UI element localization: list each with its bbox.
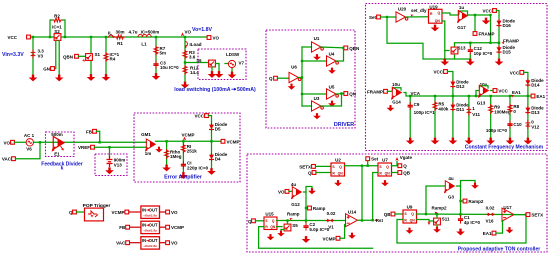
svg-text:500m: 500m (51, 132, 63, 137)
terminal EA1 (U17) (483, 231, 496, 236)
buffer U1 (312, 36, 324, 52)
wire EA1 to U17 minus (496, 221, 503, 233)
svg-text:Proposed adaptive TON controll: Proposed adaptive TON controller (458, 246, 541, 252)
svg-text:Constant Frequency Mechanism: Constant Frequency Mechanism (465, 144, 544, 150)
terminal Ramp2 (463, 199, 484, 204)
ground D11 (449, 138, 458, 145)
svg-text:Ramp: Ramp (313, 206, 326, 211)
buffer U3 (312, 96, 324, 111)
svg-text:+Out/1.8u: +Out/1.8u (143, 244, 157, 248)
wire U14 out to Rst (358, 219, 374, 221)
svg-text:1u: 1u (459, 5, 465, 10)
svg-text:Set: Set (371, 157, 379, 162)
wire SETX to U2 (316, 165, 332, 167)
wire VCC to D14 chain (524, 72, 529, 138)
wire U19 Q to G17 (442, 13, 459, 15)
wire U15 R to bottom rail (259, 227, 373, 249)
source V12 (526, 120, 540, 130)
resistor R8 (508, 95, 520, 138)
label Constant Frequency Mechanism (465, 144, 544, 150)
current probe ILoad (185, 42, 202, 49)
capacitor C12 (468, 46, 493, 56)
wire U17 out to SETX (514, 213, 527, 215)
svg-text:S6: S6 (196, 58, 202, 63)
ground QN line (441, 59, 450, 66)
svg-text:100p IC=1: 100p IC=1 (414, 110, 436, 115)
ground U4 (328, 68, 336, 74)
svg-text:251k: 251k (187, 148, 198, 153)
svg-text:Q: Q (403, 164, 407, 169)
svg-text:VO: VO (185, 29, 192, 34)
svg-text:VCMP: VCMP (171, 225, 184, 230)
wire U5 out to QN (336, 93, 344, 96)
svg-text:D15: D15 (503, 50, 512, 55)
comparator U14 (346, 209, 358, 226)
svg-text:Ramp2: Ramp2 (468, 199, 484, 204)
svg-text:GN: GN (43, 67, 50, 72)
svg-text:VO: VO (278, 189, 285, 194)
svg-text:OUT: OUT (149, 238, 158, 243)
wire ramp vertical (305, 192, 307, 223)
svg-text:3.6: 3.6 (189, 55, 196, 60)
capacitor C1 (458, 215, 481, 225)
svg-text:U9: U9 (407, 204, 413, 209)
svg-text:QN: QN (349, 92, 356, 97)
svg-text:0.02: 0.02 (486, 205, 495, 210)
svg-text:U14: U14 (348, 209, 357, 214)
resistor R12 (183, 61, 199, 75)
diode D5 (209, 122, 228, 132)
svg-text:VCMP: VCMP (227, 139, 240, 144)
wire G12 loop to arrow (304, 187, 313, 193)
wire Q to U2 R (316, 172, 331, 174)
svg-text:D4: D4 (215, 157, 221, 162)
flip-flop U15 (264, 211, 277, 229)
terminal EA1 (531, 94, 546, 99)
buffer U20 (396, 7, 408, 23)
ground C9 (406, 138, 415, 145)
wire VREF line (95, 146, 147, 148)
svg-text:FRAMP: FRAMP (503, 39, 519, 44)
svg-text:G17: G17 (457, 25, 466, 30)
wire U3 out up to QN line (321, 92, 343, 106)
wire Ramp2 vertical (459, 186, 463, 216)
buffer U4 (327, 52, 339, 66)
svg-text:D16: D16 (503, 23, 512, 28)
ground R5 (431, 138, 440, 145)
svg-text:U20: U20 (398, 7, 407, 12)
wire S13/C12 loop (455, 42, 500, 60)
current source G14 (391, 82, 401, 104)
wire VO to divider (15, 141, 147, 143)
resistor RI (181, 140, 197, 172)
flip-flop U2 (331, 157, 345, 176)
node Rst (374, 218, 383, 223)
svg-text:4.7u: 4.7u (128, 30, 137, 35)
wire load branch (184, 37, 186, 82)
ground U1 (313, 54, 321, 60)
terminal FRAMP (mid) (473, 32, 494, 37)
wire S1 branch (90, 36, 92, 75)
wire U9 Q out to main line (417, 213, 527, 216)
svg-text:FB: FB (119, 225, 126, 230)
svg-text:VO: VO (171, 210, 178, 215)
svg-text:G14: G14 (392, 100, 401, 105)
svg-text:Q: Q (269, 76, 273, 81)
svg-text:D11: D11 (456, 107, 465, 112)
ground S11 gate (427, 221, 430, 225)
node FRAMP label (489, 39, 519, 45)
wire R4 branch (105, 36, 107, 75)
battery V3 (2, 49, 44, 59)
terminal Q (driver in) (269, 76, 277, 81)
ground GM1 (155, 147, 162, 153)
svg-text:V16: V16 (485, 218, 494, 223)
terminal VO (G12) (278, 189, 289, 194)
label Error Amplifier (164, 174, 203, 180)
svg-text:IN: IN (142, 223, 146, 228)
diode D11 (450, 103, 469, 113)
wire G13 to VCC (491, 90, 494, 92)
source V16 (485, 205, 494, 223)
svg-text:VCC: VCC (433, 70, 443, 75)
op-amp GM1 (141, 132, 155, 156)
terminal VCMP out (221, 139, 239, 144)
svg-text:Vo=1.8V: Vo=1.8V (192, 27, 212, 33)
wire CFM main rail (404, 93, 531, 97)
wire VCMP to U14 minus (340, 225, 346, 239)
node QBN (63, 54, 78, 59)
wire QB to U9 (395, 213, 403, 215)
ground S5 (277, 230, 284, 237)
svg-text:S1: S1 (95, 52, 101, 57)
ground U17 (506, 227, 514, 233)
svg-text:G12: G12 (291, 202, 300, 207)
ground R9 (486, 138, 495, 145)
svg-text:set_dly: set_dly (411, 8, 427, 13)
switch S5 (284, 219, 298, 231)
svg-text:FRAMP: FRAMP (367, 89, 383, 94)
svg-text:4u: 4u (291, 182, 297, 187)
svg-text:10u IC=0: 10u IC=0 (160, 65, 179, 70)
wire U7 R from Rst line (373, 173, 378, 221)
wire U7 Q out (392, 162, 398, 166)
svg-text:V13: V13 (114, 163, 123, 168)
in-out probe 1 VCMP to VO (111, 206, 178, 218)
svg-text:SETX: SETX (299, 164, 311, 169)
ground C10 (506, 138, 515, 145)
wire U2Q down to ramp line (361, 166, 363, 222)
svg-text:VAC: VAC (2, 157, 12, 162)
flip-flop U19 (429, 4, 443, 23)
svg-text:R2: R2 (54, 14, 60, 19)
node EA1 label (510, 90, 521, 98)
ground below S6 (208, 71, 224, 78)
wire main input rail (31, 36, 209, 38)
svg-text:Q: Q (308, 171, 312, 176)
wire VAC up to node (16, 141, 42, 159)
diode D12 (450, 80, 469, 90)
ground E1 right arrow (61, 146, 65, 151)
V13 box (95, 154, 127, 176)
current source G17 (457, 5, 468, 30)
capacitor C10 (486, 121, 522, 134)
svg-text:V7: V7 (239, 61, 245, 66)
svg-text:ILoad: ILoad (190, 42, 202, 47)
resistor R5 (433, 95, 449, 138)
capacitor C2 (303, 222, 329, 232)
node Vgate (395, 155, 412, 161)
svg-text:Set: Set (369, 15, 377, 20)
resistor Rtho (165, 140, 182, 165)
svg-text:U3: U3 (314, 96, 320, 101)
wire to U1 (302, 46, 312, 48)
terminal VCC (EA) (194, 114, 208, 119)
capacitor C3 (153, 60, 179, 70)
svg-text:+Out/1.8u: +Out/1.8u (143, 213, 157, 217)
svg-text:100Meg: 100Meg (494, 110, 511, 115)
svg-text:QB: QB (384, 212, 392, 217)
switch S1 (82, 52, 101, 63)
svg-text:VCA: VCA (411, 91, 421, 96)
ground U15 (267, 234, 275, 240)
svg-text:OUT: OUT (149, 207, 158, 212)
svg-text:U5: U5 (329, 85, 335, 90)
inductor L1 (128, 30, 159, 47)
svg-text:QBN: QBN (63, 54, 73, 59)
diode D4 (209, 152, 228, 162)
terminal VCC (G17) (482, 9, 496, 14)
CFM box (366, 4, 548, 151)
svg-text:V11: V11 (472, 112, 480, 117)
svg-text:C9: C9 (414, 102, 420, 107)
svg-text:VO: VO (171, 241, 178, 246)
wire Q to pop box (77, 211, 85, 213)
svg-text:Rst: Rst (376, 218, 384, 223)
svg-text:Ramp2: Ramp2 (432, 205, 448, 210)
terminal QN (344, 92, 356, 97)
DRIVER box (266, 30, 355, 128)
svg-text:IC=500m: IC=500m (141, 30, 160, 35)
terminal Set (TON) (366, 157, 379, 166)
wire GM1 out (156, 140, 222, 142)
diode D15 (497, 45, 516, 55)
switch S6 (196, 58, 219, 72)
svg-text:500mA): 500mA) (237, 87, 256, 93)
svg-text:LDSW: LDSW (226, 52, 240, 57)
terminal QBN (344, 46, 359, 51)
svg-text:EA1: EA1 (536, 94, 545, 99)
terminal SETX (U2) (299, 164, 315, 169)
terminal FB (86, 129, 96, 134)
wire VCC diode chain (209, 116, 213, 169)
ground below V7 (228, 72, 237, 79)
svg-text:Vgate: Vgate (400, 155, 413, 160)
svg-text:OUT: OUT (149, 223, 158, 228)
svg-text:D14: D14 (531, 83, 540, 88)
wire U4 out up to QBN line (336, 48, 344, 61)
Feedback Divider box (46, 132, 75, 157)
wire U15 Q to ramp line (277, 220, 346, 222)
wire U9 QN to S11 gate (417, 220, 434, 222)
load switching box (198, 49, 246, 80)
ground U7 (381, 180, 389, 186)
wire G17 out (468, 14, 492, 43)
wire Q to U6 (278, 77, 290, 79)
svg-text:FB: FB (86, 129, 93, 134)
POP trigger box (85, 208, 104, 221)
current source G3 (444, 176, 455, 199)
wire U7 QN out (392, 172, 398, 174)
ground U5 (328, 101, 336, 107)
capacitor CI (181, 161, 209, 171)
svg-text:U19: U19 (429, 4, 438, 9)
ground V11 (465, 138, 474, 145)
ground C2 (302, 236, 311, 243)
terminal Q (U15) (248, 219, 255, 224)
current source G12 (291, 182, 301, 207)
wire U6 out vertical bus (299, 47, 304, 106)
svg-text:QN: QN (435, 19, 441, 23)
svg-text:DRIVER: DRIVER (334, 122, 354, 128)
svg-text:S11: S11 (442, 217, 450, 222)
svg-text:VREF: VREF (78, 145, 90, 150)
svg-text:V1: V1 (328, 224, 334, 229)
svg-text:VAC: VAC (116, 241, 126, 246)
wire Q to U15 (256, 220, 265, 222)
wire to U4 (301, 60, 327, 62)
wire VO to G12 (289, 190, 292, 192)
svg-text:Ramp: Ramp (287, 211, 300, 216)
svg-text:D5: D5 (215, 127, 221, 132)
ground S11 (433, 225, 441, 233)
svg-text:30m: 30m (115, 30, 124, 35)
diode chain D16 (497, 11, 516, 60)
ground below S1 (87, 74, 96, 81)
ground V12 (524, 138, 533, 145)
node Ramp label (287, 211, 300, 221)
svg-text:G3: G3 (448, 195, 455, 200)
switch S13 (451, 46, 466, 54)
ground below C12 (466, 59, 475, 66)
ground G3 return (471, 183, 479, 189)
ground U6 (288, 84, 296, 90)
svg-text:IN: IN (142, 238, 146, 243)
amplifier E1 (51, 132, 64, 157)
svg-text:4p IC=0: 4p IC=0 (464, 220, 481, 225)
wire VCC to D12 (448, 72, 455, 139)
wire V3 branch (32, 36, 34, 75)
label Feedback Divider (41, 161, 82, 171)
wire G3 loop (457, 181, 476, 187)
terminal VO (fb input) (3, 140, 14, 145)
terminal VCC (D14) (510, 70, 524, 75)
resistor R4 (104, 52, 120, 62)
svg-text:IN: IN (142, 207, 146, 212)
svg-text:100p IC=0: 100p IC=0 (486, 128, 508, 133)
ground G12 return (308, 188, 316, 194)
svg-text:Error Amplifier: Error Amplifier (164, 174, 203, 180)
node GN (43, 67, 54, 72)
terminal Q out (398, 164, 407, 169)
svg-text:+Out/1.8u: +Out/1.8u (143, 229, 157, 233)
wire Set to U20 and down (381, 16, 455, 59)
svg-text:FRAMP: FRAMP (479, 32, 495, 37)
svg-text:S5: S5 (292, 223, 298, 228)
terminal VCMP (U14) (322, 236, 339, 241)
resistor R7 (154, 46, 166, 56)
switch S2 (52, 25, 62, 41)
svg-text:5m: 5m (160, 51, 167, 56)
wire U2 Q out to U7 S (345, 165, 379, 167)
ground below V3 (29, 75, 38, 82)
terminal SETX out (526, 213, 543, 218)
source V11 (467, 95, 481, 138)
svg-text:load switching (100mA: load switching (100mA (174, 87, 230, 93)
svg-text:VO: VO (3, 140, 10, 145)
source V7 (225, 60, 245, 72)
current source G13 (475, 82, 489, 105)
svg-text:10p IC=0: 10p IC=0 (474, 51, 493, 56)
svg-text:VCC: VCC (510, 70, 520, 75)
label load switching (174, 87, 256, 93)
svg-text:G13: G13 (477, 101, 486, 106)
wire to U3 (302, 105, 312, 107)
resistor R3 (183, 50, 196, 60)
node VO label (181, 29, 192, 38)
wire to S6 (185, 62, 209, 64)
ground below R4 (102, 74, 111, 81)
switch S11 (434, 214, 450, 225)
ground C1 (456, 229, 465, 236)
svg-text:VCC: VCC (482, 9, 492, 14)
svg-text:5.0p IC=0: 5.0p IC=0 (309, 227, 329, 232)
node set_dly (410, 8, 427, 18)
wire to V13 (108, 146, 110, 157)
wire up to G3 (426, 186, 445, 214)
ground below D15 (495, 59, 504, 66)
wire QBN to S1 (79, 55, 86, 57)
TON box (247, 154, 547, 252)
node VCA (409, 91, 421, 98)
wire U9 R from feedback rail (397, 215, 526, 243)
ground Rtho (162, 165, 171, 172)
terminal VAC (2, 157, 16, 162)
svg-text:VCC: VCC (194, 114, 204, 119)
wire FRAMP to G14 (388, 90, 392, 92)
svg-text:4u: 4u (448, 176, 454, 181)
label POP Trigger (83, 203, 111, 209)
ground G14 (387, 105, 395, 111)
svg-text:k: k (61, 166, 64, 172)
current probe IL (108, 30, 115, 37)
in-out probe 3 VAC to VO (116, 237, 178, 249)
terminal VCC (D12) (433, 70, 447, 75)
svg-text:220p IC=0: 220p IC=0 (187, 166, 209, 171)
svg-text:0.02: 0.02 (327, 211, 336, 216)
ground U19 (431, 25, 440, 32)
svg-text:GM1: GM1 (141, 132, 151, 137)
svg-text:EA1: EA1 (483, 231, 492, 236)
flip-flop U7 (378, 157, 392, 176)
svg-text:L1: L1 (141, 42, 147, 47)
resistor R1 (115, 30, 125, 46)
svg-text:VCMP: VCMP (181, 132, 194, 137)
buffer U6 (289, 65, 301, 83)
node VCC (7, 35, 30, 40)
wire U15 QN to S5 (277, 226, 283, 228)
svg-text:U15: U15 (265, 211, 274, 216)
